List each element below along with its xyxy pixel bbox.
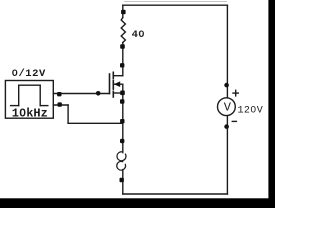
pulse waveform rising edge <box>18 85 20 105</box>
wire voltmeter bottom to rail <box>226 116 228 194</box>
inductor L loop 1 <box>117 152 126 161</box>
node dot resistor bottom pin <box>120 44 125 49</box>
wire right column upper (rail to voltmeter) <box>226 5 228 98</box>
voltmeter circle <box>218 98 236 116</box>
wire gate from pulse box <box>53 93 109 95</box>
wire top rail <box>123 4 228 6</box>
transistor M1 channel bar segment 2 <box>112 81 114 90</box>
node dot resistor top pin <box>121 10 126 15</box>
wire pulse box lower stub <box>53 104 68 106</box>
wire source column down to inductor <box>122 93 124 153</box>
resistor R 40 <box>121 18 125 43</box>
voltmeter plus sign vertical <box>235 90 237 96</box>
inductor L loop 2 <box>117 161 126 170</box>
transistor M1 bulk leg down to source <box>122 84 124 93</box>
node dot inductor bottom pin <box>120 178 124 182</box>
node dot gate wire junction <box>96 91 101 96</box>
pulse waveform baseline right <box>40 105 48 107</box>
transistor M1 gate bar <box>109 74 111 94</box>
node dot drain pin <box>120 63 124 67</box>
black bar right edge <box>268 0 275 208</box>
wire pulse box lower horizontal to source node <box>68 122 123 124</box>
node dot source pin <box>120 99 124 103</box>
svg-text:0/12V: 0/12V <box>12 68 46 80</box>
transistor M1 bulk stub <box>114 83 123 85</box>
black bar bottom edge <box>0 198 275 208</box>
svg-text:V: V <box>224 101 232 115</box>
voltmeter minus sign <box>232 120 236 122</box>
pulse waveform falling edge <box>39 85 41 105</box>
transistor M1 source stub <box>113 92 123 94</box>
node dot voltmeter top <box>224 83 229 88</box>
white masks to hide Liberation Mono dotted-zero artifacts <box>14 32 255 114</box>
node dot pulse box upper terminal <box>57 92 61 96</box>
transistor M1 channel bar segment 3 <box>112 91 114 97</box>
node dot bulk-source junction <box>120 91 125 96</box>
svg-text:120V: 120V <box>238 105 264 116</box>
transistor M1 drain stub <box>113 75 123 77</box>
pulse waveform baseline left <box>11 105 19 107</box>
transistor M1 channel bar segment 1 <box>112 72 114 78</box>
pulse source V1 box <box>5 81 53 119</box>
svg-text:10kHz: 10kHz <box>12 107 48 121</box>
voltmeter plus sign horizontal <box>233 92 238 94</box>
node dot junction with pulse-box wire <box>120 119 124 123</box>
node dot voltmeter bottom <box>224 124 229 129</box>
white background <box>0 0 275 208</box>
wire bottom rail <box>123 193 228 195</box>
node dot inductor top pin <box>120 139 124 143</box>
wire resistor to MOSFET drain <box>122 43 124 76</box>
wire pulse box lower vertical <box>67 105 69 123</box>
node dot pulse box lower terminal <box>58 102 62 106</box>
pulse waveform top <box>19 84 41 86</box>
faint jpeg ghost line above top rail <box>124 1 227 3</box>
transistor M1 bulk arrow <box>114 81 121 87</box>
wire left column upper (rail to resistor) <box>122 5 124 17</box>
svg-text:40: 40 <box>132 29 145 41</box>
wire inductor bottom to rail <box>122 170 124 194</box>
